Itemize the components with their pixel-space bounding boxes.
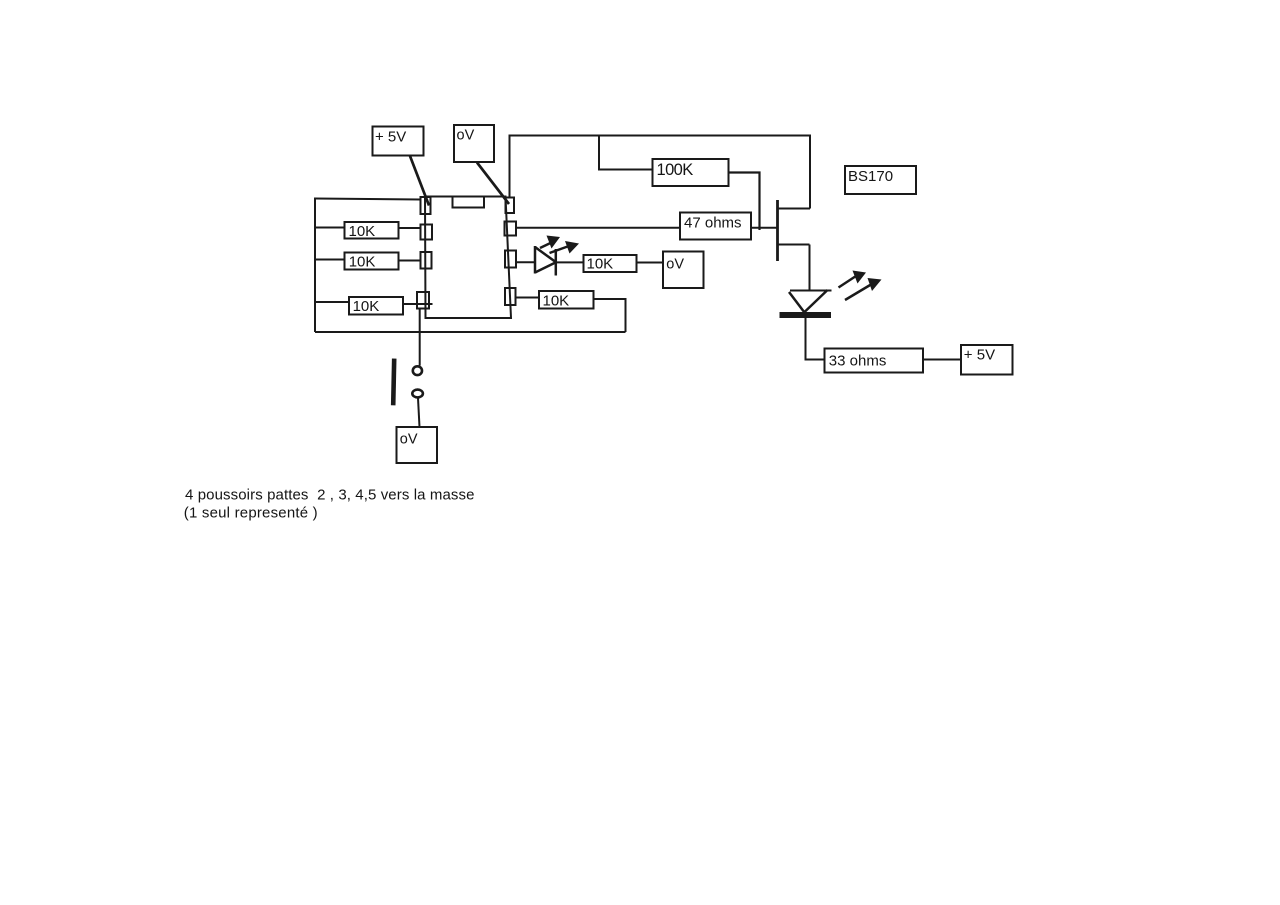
wire pin 8 vertical stub	[509, 135, 511, 198]
svg-text:10K: 10K	[587, 255, 614, 272]
IC U1 body	[425, 197, 511, 319]
resistor 33 ohms	[825, 349, 924, 373]
wire 100K to gate node	[729, 173, 760, 231]
svg-text:33 ohms: 33 ohms	[829, 353, 887, 370]
wire R3 to pin 4	[403, 303, 433, 305]
wire pin 4 to switch	[419, 309, 421, 366]
svg-text:10K: 10K	[353, 298, 380, 315]
svg-text:BS170: BS170	[848, 168, 893, 185]
wire source to LED D2	[809, 245, 811, 291]
pin 3	[421, 252, 432, 269]
svg-text:oV: oV	[457, 128, 475, 144]
wire pin 6 to LED D1	[516, 261, 535, 263]
wire rail to R1	[315, 227, 345, 229]
wire R2 to pin 3	[399, 260, 421, 262]
svg-text:10K: 10K	[349, 254, 376, 271]
resistor 100K	[653, 159, 729, 186]
wire rail to R2	[315, 259, 345, 261]
svg-text:(1 seul representé ): (1 seul representé )	[184, 505, 318, 522]
wire R4 to oV	[637, 262, 664, 264]
wire tap from top rail to 100K	[599, 136, 653, 170]
resistor 47 ohms	[680, 213, 751, 240]
caption note text	[184, 487, 475, 522]
svg-text:oV: oV	[400, 432, 418, 448]
ground label oV (top)	[454, 125, 494, 162]
svg-text:4 poussoirs pattes 2 , 3, 4,5: 4 poussoirs pattes 2 , 3, 4,5 vers la ma…	[185, 487, 475, 504]
wire top rail to transistor drain	[510, 136, 811, 209]
resistor R2 10K	[345, 253, 399, 271]
wire D1 to R4	[556, 261, 584, 263]
svg-text:oV: oV	[666, 257, 684, 273]
pin 6	[505, 251, 516, 268]
wire 33 ohms to +5V	[923, 359, 961, 361]
light arrows of D2	[839, 271, 882, 301]
power label +5V (bottom)	[961, 345, 1013, 375]
resistor R1 10K	[345, 222, 399, 240]
left rail	[314, 198, 316, 333]
resistor R5 10K	[539, 291, 594, 310]
svg-text:47 ohms: 47 ohms	[684, 214, 742, 231]
power label +5V (top)	[373, 127, 424, 156]
pin 7	[505, 222, 517, 236]
resistor R4 10K	[584, 255, 637, 272]
wire switch to oV	[418, 398, 420, 427]
wire LED D2 to 33 ohms	[806, 318, 825, 360]
svg-text:100K: 100K	[657, 161, 694, 179]
leader wire from oV box to pin 8	[477, 163, 509, 205]
light arrows of D1	[540, 236, 579, 254]
wire R1 to pin 2	[399, 227, 421, 229]
pin 5	[505, 288, 516, 305]
pin 1	[421, 197, 431, 214]
svg-text:+ 5V: + 5V	[964, 347, 995, 364]
ground label oV (bottom)	[397, 427, 438, 463]
resistor R3 10K	[349, 297, 403, 315]
wire pin 7 to 47 ohms	[516, 227, 680, 229]
LED D2	[780, 290, 832, 318]
svg-text:10K: 10K	[543, 293, 570, 310]
bottom rail	[315, 331, 626, 333]
wire 47 ohms to gate	[751, 227, 778, 229]
svg-text:10K: 10K	[349, 223, 376, 240]
pushbutton SW1	[393, 359, 423, 406]
pin 4	[417, 292, 429, 309]
pin 2	[421, 225, 433, 240]
label BS170	[845, 166, 916, 194]
leader wire from +5V box to pin 1	[410, 156, 429, 206]
wire top-left rail to pin 1	[315, 199, 421, 200]
pin 8	[506, 198, 515, 214]
wire pin 5 to R5	[516, 297, 540, 299]
ground label oV (mid)	[663, 252, 704, 289]
transistor Q1 BS170	[778, 200, 811, 261]
svg-text:+ 5V: + 5V	[375, 128, 406, 145]
wire R5 to bottom rail	[594, 299, 626, 332]
LED D1	[535, 246, 556, 276]
wire rail to R3	[315, 301, 349, 303]
